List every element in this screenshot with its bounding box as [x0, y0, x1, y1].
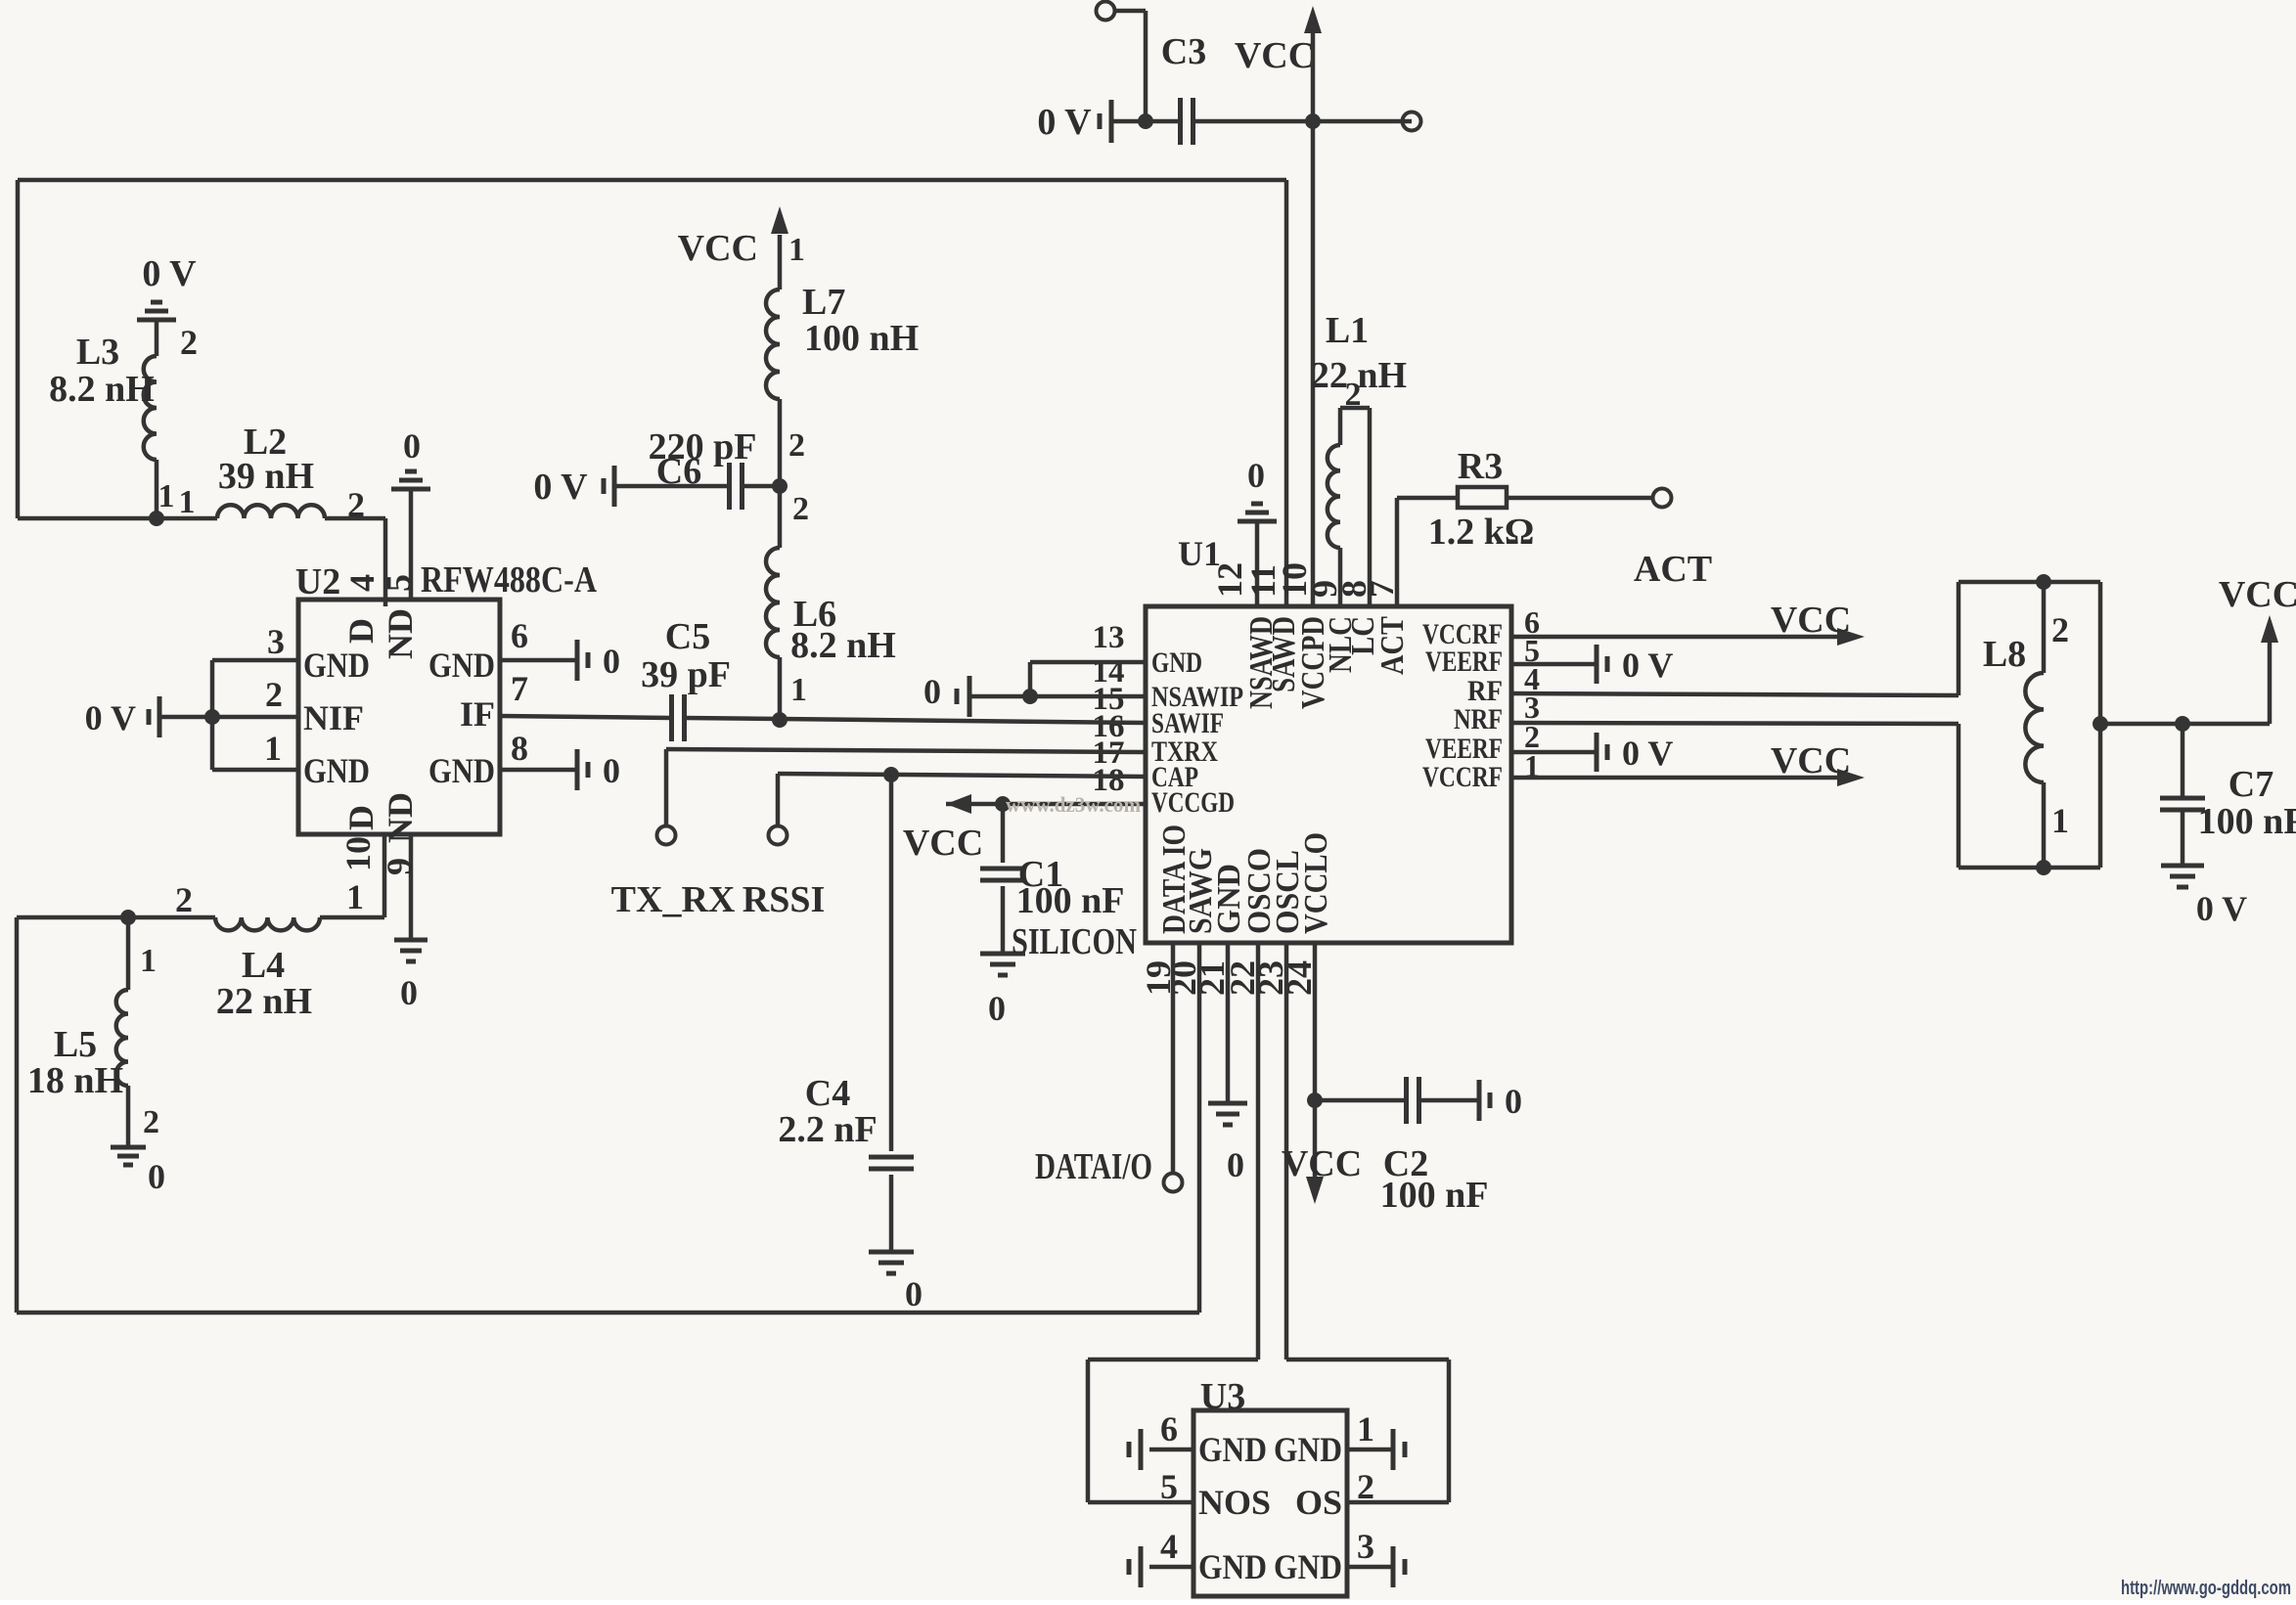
svg-text:1: 1	[788, 232, 805, 268]
svg-text:D: D	[341, 805, 381, 830]
svg-text:6: 6	[511, 616, 528, 655]
svg-text:GND: GND	[1274, 1430, 1342, 1469]
svg-text:GND: GND	[1198, 1430, 1267, 1469]
svg-text:7: 7	[1362, 580, 1401, 598]
svg-text:VCCRF: VCCRF	[1422, 761, 1503, 793]
svg-text:6: 6	[1160, 1409, 1178, 1449]
svg-text:VCC: VCC	[678, 228, 758, 269]
svg-text:0: 0	[603, 751, 620, 790]
svg-text:0: 0	[1505, 1082, 1522, 1121]
svg-text:SILICON: SILICON	[1012, 921, 1137, 962]
svg-text:0: 0	[603, 642, 620, 681]
svg-text:C4: C4	[805, 1073, 850, 1114]
svg-text:9: 9	[380, 858, 419, 875]
svg-text:GND: GND	[1274, 1547, 1342, 1586]
svg-text:2: 2	[347, 485, 365, 524]
svg-text:C3: C3	[1161, 31, 1206, 72]
svg-text:ACT: ACT	[1634, 549, 1712, 590]
svg-text:VCC: VCC	[1282, 1143, 1362, 1184]
svg-text:GND: GND	[1151, 646, 1202, 679]
svg-text:10: 10	[338, 836, 378, 871]
svg-text:8.2 nH: 8.2 nH	[49, 369, 155, 410]
svg-text:1: 1	[790, 672, 807, 708]
svg-text:D: D	[341, 618, 381, 644]
svg-text:2: 2	[1357, 1467, 1374, 1506]
svg-text:C5: C5	[665, 616, 710, 657]
svg-text:GND: GND	[428, 646, 495, 685]
svg-text:0 V: 0 V	[2196, 889, 2247, 928]
svg-text:100 nF: 100 nF	[2198, 801, 2296, 842]
svg-text:VCC: VCC	[2219, 574, 2296, 615]
svg-text:RFW488C-A: RFW488C-A	[421, 559, 597, 601]
svg-text:NOS: NOS	[1198, 1483, 1271, 1522]
svg-text:1: 1	[158, 478, 175, 514]
svg-text:5: 5	[379, 574, 418, 592]
svg-text:39 pF: 39 pF	[641, 654, 731, 695]
svg-text:7: 7	[511, 669, 528, 708]
svg-text:4: 4	[1160, 1527, 1178, 1566]
svg-text:2: 2	[265, 675, 283, 714]
svg-text:VCC: VCC	[1771, 740, 1851, 781]
svg-text:8.2 nH: 8.2 nH	[790, 625, 896, 666]
svg-text:1: 1	[140, 943, 157, 979]
svg-text:NRF: NRF	[1454, 703, 1503, 736]
svg-text:1: 1	[264, 729, 282, 768]
svg-text:1: 1	[2051, 801, 2069, 840]
svg-text:C7: C7	[2228, 764, 2273, 805]
svg-text:2: 2	[792, 491, 809, 527]
svg-text:1: 1	[346, 877, 364, 916]
svg-text:GND: GND	[303, 751, 370, 790]
svg-text:2: 2	[788, 427, 805, 464]
svg-text:GND: GND	[1198, 1547, 1267, 1586]
svg-text:0: 0	[403, 426, 421, 466]
svg-text:8: 8	[511, 729, 528, 768]
svg-text:ND: ND	[381, 608, 420, 659]
svg-text:NIF: NIF	[303, 698, 364, 737]
svg-text:0: 0	[988, 989, 1006, 1028]
svg-text:100 nH: 100 nH	[804, 318, 919, 359]
svg-text:2: 2	[2051, 610, 2069, 649]
svg-text:5: 5	[1160, 1467, 1178, 1506]
svg-text:0: 0	[148, 1157, 165, 1196]
svg-text:2: 2	[143, 1104, 159, 1140]
svg-text:GND: GND	[428, 751, 495, 790]
svg-text:0 V: 0 V	[1037, 102, 1092, 143]
svg-text:U3: U3	[1200, 1376, 1245, 1417]
svg-text:0 V: 0 V	[533, 467, 588, 508]
svg-text:2: 2	[175, 880, 193, 919]
svg-text:2: 2	[180, 323, 198, 362]
svg-text:L3: L3	[76, 332, 119, 373]
svg-text:VEERF: VEERF	[1425, 646, 1503, 678]
svg-text:L5: L5	[54, 1024, 97, 1065]
svg-text:U2: U2	[295, 561, 340, 602]
svg-text:0 V: 0 V	[1622, 646, 1673, 685]
svg-text:0 V: 0 V	[142, 253, 197, 294]
svg-text:L8: L8	[1983, 634, 2026, 675]
svg-text:39 nH: 39 nH	[218, 456, 314, 497]
svg-text:1: 1	[179, 484, 196, 520]
svg-text:C6: C6	[656, 451, 701, 492]
svg-text:0 V: 0 V	[1622, 734, 1673, 773]
svg-text:1: 1	[1357, 1409, 1374, 1449]
svg-text:VCCGD: VCCGD	[1151, 786, 1235, 819]
svg-text:VCCLO: VCCLO	[1298, 832, 1334, 934]
svg-text:18 nH: 18 nH	[27, 1060, 123, 1101]
svg-text:L7: L7	[802, 282, 845, 323]
svg-text:0: 0	[1247, 456, 1265, 495]
svg-text:RSSI: RSSI	[743, 879, 826, 920]
svg-text:IF: IF	[460, 694, 495, 734]
svg-text:2.2 nF: 2.2 nF	[778, 1109, 877, 1150]
svg-text:L1: L1	[1326, 310, 1369, 351]
svg-text:22 nH: 22 nH	[216, 981, 312, 1022]
svg-text:DATAI/O: DATAI/O	[1035, 1146, 1152, 1187]
svg-text:100 nF: 100 nF	[1016, 880, 1125, 921]
svg-text:0 V: 0 V	[85, 698, 136, 737]
svg-text:OS: OS	[1295, 1483, 1342, 1522]
svg-text:VCC: VCC	[1771, 600, 1851, 641]
svg-text:0: 0	[1227, 1145, 1244, 1184]
svg-text:L4: L4	[242, 945, 285, 986]
svg-text:0: 0	[905, 1274, 923, 1314]
svg-text:www.dz3w.com: www.dz3w.com	[1006, 792, 1141, 817]
svg-text:1.2 kΩ: 1.2 kΩ	[1428, 512, 1535, 553]
svg-text:100 nF: 100 nF	[1380, 1175, 1489, 1216]
svg-text:ACT: ACT	[1374, 616, 1411, 675]
svg-text:VCC: VCC	[903, 823, 983, 864]
svg-text:TX_RX: TX_RX	[611, 879, 736, 920]
svg-text:0: 0	[923, 672, 941, 711]
svg-text:0: 0	[400, 973, 418, 1012]
svg-text:13: 13	[1093, 620, 1125, 655]
svg-text:VCC: VCC	[1235, 35, 1315, 76]
svg-text:3: 3	[267, 622, 285, 661]
svg-text:2: 2	[1345, 377, 1362, 413]
svg-text:3: 3	[1357, 1527, 1374, 1566]
svg-text:http://www.go-gddq.com: http://www.go-gddq.com	[2121, 1578, 2291, 1599]
svg-text:GND: GND	[303, 646, 370, 685]
svg-text:4: 4	[342, 574, 382, 592]
svg-text:R3: R3	[1458, 446, 1503, 487]
